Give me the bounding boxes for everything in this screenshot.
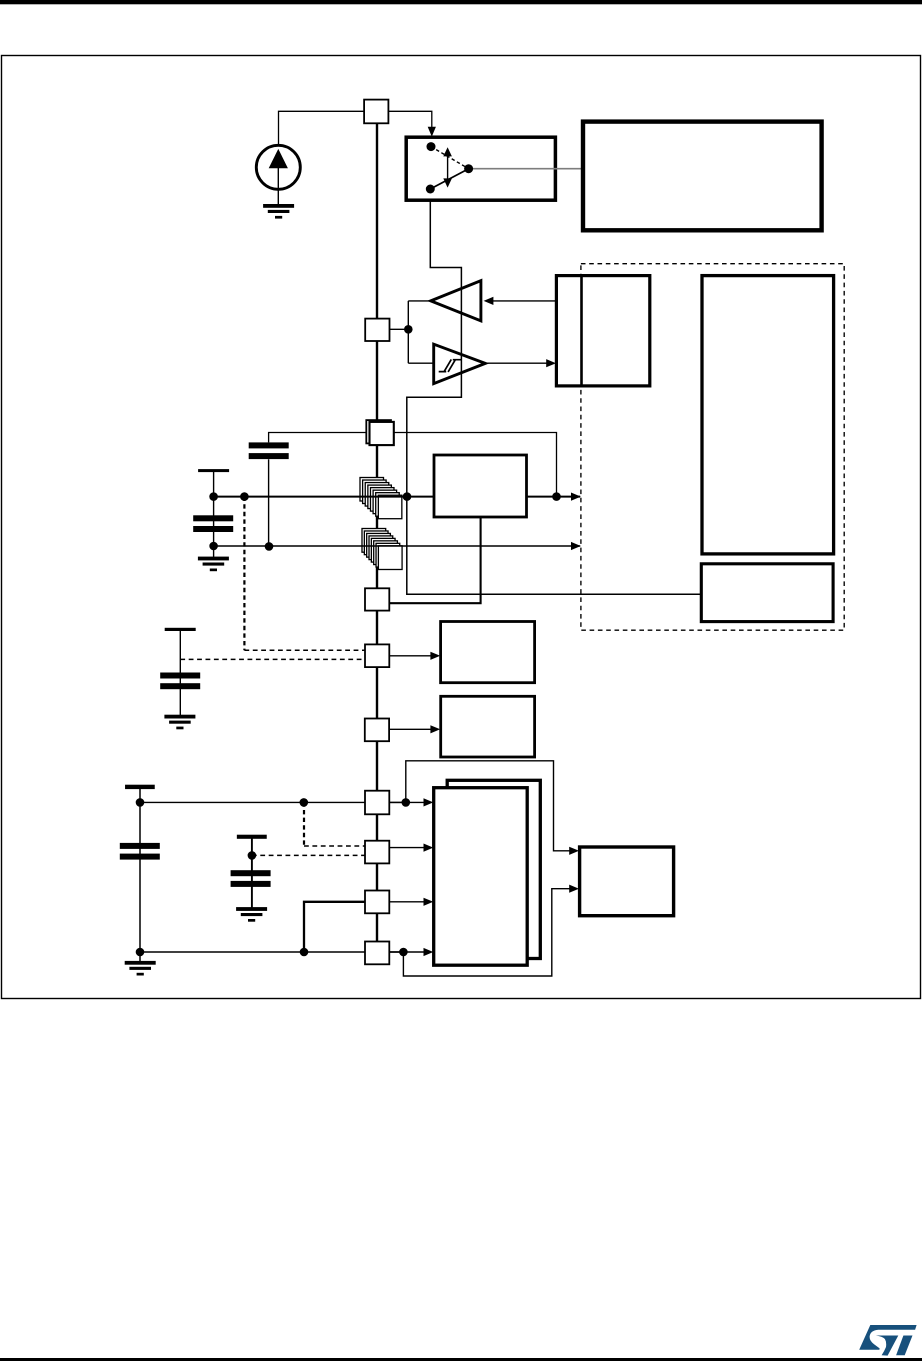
wire dashed C5 to P8 lower (252, 854, 365, 856)
node junction bus2-C1 (209, 542, 218, 551)
node arrow bus2 into boundary (571, 542, 581, 550)
node arrow buffer input (484, 297, 494, 305)
block U5 register bank (wide) (701, 564, 833, 622)
block U9 memory back box (447, 780, 540, 958)
node C1 top terminal bar (198, 469, 229, 472)
node arrow P9 to U10 (424, 898, 434, 906)
wire dashed vdd to P8 upper (304, 845, 365, 847)
node arrow VDD to U10 (424, 798, 434, 806)
pad P3 front square (370, 422, 394, 445)
node dashed digital boundary box (581, 264, 844, 631)
op-amp A2 schmitt trigger (434, 344, 486, 383)
node junction bus1-ref (240, 492, 249, 501)
node junction VDD-P7out (402, 798, 411, 807)
node junction bus1-C1 (209, 492, 218, 501)
wire dashed ref to P5 upper (244, 649, 365, 651)
node ST logo (859, 1325, 916, 1350)
wire switch common to control (gray) (471, 168, 583, 170)
node S1 throw bottom contact (426, 185, 435, 194)
wire switch-to-matrix branch (407, 189, 702, 594)
wire current source to pad P1 (279, 111, 365, 144)
wire S1 closed throw (430, 169, 468, 189)
node S1 actuator arrow (447, 153, 449, 182)
node S1 throw top contact (427, 142, 436, 151)
block U11 serial interface (580, 847, 674, 916)
wire VSS rail (140, 951, 406, 953)
block U6 SAR converter (434, 455, 527, 517)
node arrow pathA to U11 (569, 847, 579, 855)
current source I1 (256, 145, 300, 189)
wire P9 left branch (304, 902, 365, 952)
wire P8 to logic (389, 847, 427, 849)
node junction bus1-branch (403, 492, 412, 501)
node arrow pathB to U11 (569, 885, 579, 893)
wire bottom rule bar (0, 1358, 922, 1361)
pad P7 (365, 791, 389, 815)
wire P9 to logic (389, 901, 427, 903)
wire VDD arrow line (389, 801, 427, 803)
node arrow schmitt to U3 (546, 359, 556, 367)
wire buffer-schmitt stem (407, 301, 409, 363)
wire logic-to-IO path A (406, 761, 573, 851)
node junction VSS-P10out (399, 948, 408, 957)
wire S1 open throw (dashed) (431, 147, 469, 169)
node junction VSS-P9 (300, 948, 309, 957)
ground GND3 (C3) (164, 715, 195, 719)
capacitor bank CS1 (stacked sampling capacitors) (360, 478, 384, 502)
node C5 top terminal bar (237, 835, 267, 839)
wire main pad rail (376, 111, 378, 953)
pad P8 (365, 841, 389, 864)
wire analog bus 2 (214, 545, 581, 547)
ground GND1 (current source) (263, 204, 294, 208)
node figure frame (2, 56, 921, 999)
node arrow P5 to U7 (430, 652, 440, 660)
block U2 control logic (top right) (583, 122, 822, 231)
pad P4 (365, 588, 389, 610)
capacitor C5 (231, 870, 271, 876)
node junction VDD-C4 (136, 798, 145, 807)
wire dashed vdd branch vertical (303, 802, 305, 846)
wire I1 to ground (277, 189, 279, 204)
block U10 memory front box (434, 788, 528, 966)
node C3 top terminal bar (165, 628, 196, 631)
wire C2 bottom stem (268, 459, 270, 547)
node S1 common contact (464, 164, 473, 173)
node junction P2-branch (404, 325, 413, 334)
node U3 internal divider (580, 276, 583, 386)
op-amp A1 buffer (431, 281, 481, 321)
pad P10 (365, 942, 389, 965)
node junction VSS-C4 (136, 948, 145, 957)
wire schmitt output (485, 362, 551, 364)
wire buffer input from comparator box (489, 300, 558, 302)
wire analog bus 1 (214, 496, 581, 498)
wire P6 to OSC2 box (389, 728, 433, 730)
node junction bus1-out (552, 492, 561, 501)
node junction C5-dashed (248, 851, 257, 860)
node arrow P6 to U8 (430, 725, 440, 733)
wire top rule bar (0, 0, 922, 4)
block U7 oscillator 1 (441, 622, 535, 683)
wire VDD rail (140, 801, 406, 803)
wire dashed C3 to P5 lower (180, 658, 365, 660)
ground GND4 (C4) (125, 961, 156, 965)
capacitor bank CS2 (stacked sampling capacitors) (362, 529, 386, 553)
pad P6 (365, 719, 389, 742)
capacitor C1 (193, 515, 233, 521)
node junction bus2-C2 (265, 542, 274, 551)
node arrow VSS to U10 (424, 948, 434, 956)
block U8 oscillator 2 (441, 696, 535, 757)
ground GND5 (C5) (236, 907, 267, 911)
wire P2 node branch (389, 328, 408, 330)
capacitor C2 (249, 442, 289, 448)
pad P1 (top) (364, 100, 388, 124)
capacitor C3 (160, 673, 200, 679)
node C4 top terminal bar (125, 785, 155, 789)
wire C3 rail (179, 631, 181, 716)
wire C5 rail (251, 839, 253, 908)
wire VSS arrow line (389, 951, 427, 953)
wire P1 to analog switch (388, 111, 432, 129)
block U1 analog switch box (406, 137, 555, 200)
pad P3 shadow square (366, 420, 391, 443)
block U4 digital core (tall) (702, 276, 834, 554)
node arrow into switch top (428, 127, 436, 137)
pad P9 (365, 891, 389, 914)
ground GND2 (C1) (198, 557, 229, 561)
node arrow bus1 into boundary (571, 493, 581, 501)
capacitor C4 (120, 843, 160, 849)
pad P5 (365, 644, 389, 667)
block U3 comparator interface (556, 276, 649, 386)
pad P2 (365, 319, 389, 341)
node junction VDD-dashed (300, 798, 309, 807)
wire buffer output (408, 300, 430, 302)
wire dashed ref branch vertical (243, 497, 245, 651)
wire C4 rail (139, 789, 141, 962)
wire schmitt input (408, 362, 433, 364)
wire C2-to-P3-to-bus1 (269, 433, 557, 497)
wire C1 rail (213, 472, 215, 558)
wire P5 to OSC box (389, 655, 433, 657)
node arrow P8 to U10 (424, 844, 434, 852)
wire P4 to SAR bottom (390, 517, 481, 603)
wire logic-to-IO path B (403, 889, 572, 976)
